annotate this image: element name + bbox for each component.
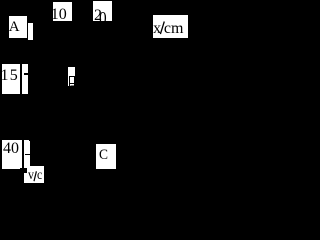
- label x/cm: slash: [159, 21, 166, 35]
- box 10 (x-axis value 10): [53, 2, 72, 21]
- label x/cm: letters cm: [164, 21, 184, 37]
- box A (point label A placeholder): [9, 16, 27, 38]
- notch at top-right of 40 bar: [28, 140, 31, 141]
- box 40 (axis value 40): [2, 140, 22, 169]
- tick dash in 15 bar: [24, 73, 28, 75]
- box 15 (axis value 15): [2, 64, 20, 94]
- label v/c: letter v: [28, 169, 34, 183]
- bar right of 40 box: [24, 140, 30, 166]
- black blob at axes origin junction: [20, 168, 27, 173]
- box v/c (vertical axis unit label): [24, 166, 45, 183]
- box C (point label C placeholder): [96, 144, 116, 169]
- box 20 (x-axis value 20, digits clipped at bottom): [93, 1, 112, 21]
- label 20 digit 2: [94, 8, 102, 24]
- label x/cm: letter x: [153, 21, 161, 37]
- label C: [99, 148, 108, 163]
- box x/cm (x-axis unit label): [153, 15, 188, 39]
- label 10: [51, 7, 67, 23]
- label A: [9, 20, 20, 35]
- label 20 digit 0 clipped: [99, 9, 107, 27]
- label 40: [3, 141, 19, 157]
- bar right of A box: [28, 23, 33, 41]
- label v/c: slash: [33, 171, 38, 182]
- label v/c: letter c: [37, 169, 42, 183]
- tick dash in 40 bar: [25, 154, 30, 155]
- box B (point label B placeholder): [68, 67, 76, 86]
- label 15: [1, 68, 19, 84]
- label B (blocky pixel glyph, clipped at bottom of box): [68, 67, 76, 87]
- bar right of 15 box: [22, 64, 28, 94]
